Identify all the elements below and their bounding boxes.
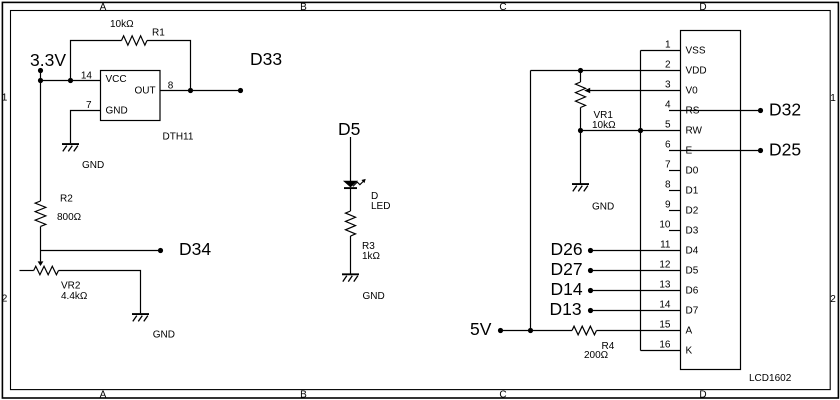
ground symbol (VR2) — [132, 314, 149, 321]
svg-text:D25: D25 — [769, 140, 801, 160]
wire RW row pin 5 — [581, 130, 681, 132]
wire R2 bottom lead — [40, 227, 42, 251]
svg-text:7: 7 — [665, 160, 671, 171]
svg-text:D27: D27 — [551, 259, 583, 279]
wire R1 right leg down to OUT net — [147, 41, 191, 91]
resistor VR1 body — [576, 82, 586, 107]
svg-text:E: E — [686, 146, 693, 157]
wire GND pin 7 — [71, 111, 102, 144]
ground symbol (VR1) — [572, 184, 589, 191]
node D25 terminal dot — [758, 148, 763, 153]
svg-text:D3: D3 — [686, 226, 699, 237]
svg-text:5V: 5V — [470, 319, 492, 339]
svg-text:D4: D4 — [686, 246, 699, 257]
svg-text:RS: RS — [686, 106, 700, 117]
junction dot R1 right on OUT — [188, 88, 193, 93]
wire K row pin 16 — [641, 350, 681, 352]
resistor R2 body — [35, 201, 46, 226]
svg-text:D13: D13 — [550, 299, 582, 319]
svg-text:B: B — [300, 2, 307, 13]
svg-text:V0: V0 — [686, 86, 699, 97]
svg-text:D5: D5 — [686, 266, 699, 277]
node D33 terminal dot — [238, 88, 243, 93]
arrowhead VR2 wiper — [38, 261, 44, 266]
wire 5V to R4 — [501, 330, 573, 332]
wire ground bus VSS to K — [640, 51, 642, 351]
node D34 terminal dot — [158, 248, 163, 253]
LED D cathode bar — [344, 187, 357, 189]
svg-text:1: 1 — [2, 93, 8, 104]
svg-text:B: B — [300, 390, 307, 400]
IC LCD1602 box — [681, 31, 741, 370]
svg-text:D14: D14 — [551, 279, 583, 299]
resistor R3 body — [346, 211, 356, 236]
svg-text:VDD: VDD — [686, 66, 707, 77]
resistor VR2 body — [34, 266, 59, 275]
wire D13 to pin 14 D7 — [591, 310, 681, 312]
svg-text:R2: R2 — [60, 194, 73, 205]
pin stub D2 — [669, 210, 681, 212]
wire OUT pin 8 to node D33 — [160, 90, 241, 92]
wire D14 to pin 13 D6 — [591, 290, 681, 292]
pin stub D3 — [669, 230, 681, 232]
svg-text:4.4kΩ: 4.4kΩ — [61, 291, 88, 302]
wire D27 to pin 12 D5 — [591, 270, 681, 272]
wire 5V riser to VDD — [530, 71, 532, 331]
wire VR1 bottom lead to RW row — [580, 108, 582, 131]
svg-text:VSS: VSS — [686, 46, 706, 57]
wire wiper stem into VR2 — [40, 251, 42, 262]
svg-text:GND: GND — [153, 330, 175, 341]
svg-text:D32: D32 — [769, 100, 801, 120]
svg-text:A: A — [100, 2, 107, 13]
ground symbol (DTH11) — [62, 144, 79, 151]
svg-text:3.3V: 3.3V — [30, 50, 66, 70]
svg-text:11: 11 — [660, 240, 671, 251]
svg-text:2: 2 — [665, 60, 671, 71]
svg-text:GND: GND — [82, 160, 104, 171]
node D14 terminal dot — [588, 288, 593, 293]
pin stub D0 — [669, 170, 681, 172]
wire D26 to pin 11 D4 — [591, 250, 681, 252]
pin stub D1 — [669, 190, 681, 192]
wire VR2 right lead to ground — [59, 271, 141, 314]
svg-text:C: C — [499, 390, 506, 400]
svg-text:10: 10 — [659, 220, 671, 231]
svg-text:4: 4 — [665, 100, 671, 111]
wire E pin 6 to node D25 — [669, 150, 761, 152]
svg-text:VR2: VR2 — [61, 281, 81, 292]
svg-text:D1: D1 — [686, 186, 699, 197]
svg-text:GND: GND — [363, 291, 385, 302]
junction dot VDD / VR1 top — [578, 68, 583, 73]
svg-text:1: 1 — [830, 93, 836, 104]
svg-text:D: D — [699, 390, 706, 400]
svg-text:800Ω: 800Ω — [57, 212, 82, 223]
svg-text:2: 2 — [830, 294, 836, 305]
wire 3.3V vertical bus down to R2 — [40, 71, 42, 202]
svg-text:A: A — [100, 390, 107, 400]
wire LED cathode to R3 — [350, 188, 352, 211]
junction dot VR1 bottom / RW — [578, 128, 583, 133]
svg-text:10kΩ: 10kΩ — [592, 120, 616, 131]
svg-text:D26: D26 — [551, 239, 583, 259]
svg-text:12: 12 — [659, 260, 671, 271]
svg-text:R1: R1 — [152, 28, 165, 39]
wire R3 to ground — [350, 236, 352, 274]
svg-text:OUT: OUT — [135, 86, 156, 97]
svg-text:RW: RW — [686, 126, 703, 137]
junction dot RW / ground bus — [638, 128, 643, 133]
svg-text:D7: D7 — [686, 306, 699, 317]
svg-text:GND: GND — [592, 202, 614, 213]
wire VSS row pin 1 — [641, 50, 681, 52]
svg-text:LCD1602: LCD1602 — [749, 373, 792, 384]
svg-text:D5: D5 — [338, 119, 360, 139]
junction dot 5V riser — [528, 328, 533, 333]
node D27 terminal dot — [588, 268, 593, 273]
wire D34 branch — [41, 250, 161, 252]
svg-text:DTH11: DTH11 — [163, 132, 194, 143]
svg-text:D: D — [699, 2, 706, 13]
wire R1 left leg — [71, 41, 122, 81]
svg-text:K: K — [686, 346, 693, 357]
node D32 terminal dot — [758, 108, 763, 113]
svg-text:6: 6 — [665, 140, 671, 151]
svg-text:8: 8 — [168, 80, 174, 91]
junction dot R1 left — [68, 78, 73, 83]
wire VCC branch to pin 14 — [41, 80, 102, 82]
svg-text:10kΩ: 10kΩ — [110, 19, 134, 30]
svg-text:200Ω: 200Ω — [584, 350, 609, 361]
svg-text:14: 14 — [81, 70, 93, 81]
svg-text:A: A — [686, 326, 693, 337]
node D26 terminal dot — [588, 248, 593, 253]
svg-text:1: 1 — [665, 40, 671, 51]
node 5V terminal dot — [498, 328, 503, 333]
wire VR1 top lead — [580, 71, 582, 83]
LED light arrow — [353, 179, 365, 186]
IC DTH11 box — [101, 71, 161, 121]
svg-text:7: 7 — [86, 100, 92, 111]
ground symbol (LED) — [342, 274, 359, 281]
resistor R4 body — [572, 326, 596, 335]
wire VR1 ground drop — [580, 131, 582, 184]
svg-text:5: 5 — [665, 120, 671, 131]
LED D triangle — [344, 181, 357, 187]
svg-text:C: C — [499, 2, 506, 13]
svg-text:3: 3 — [665, 80, 671, 91]
svg-text:VCC: VCC — [106, 74, 127, 85]
svg-text:1kΩ: 1kΩ — [362, 251, 381, 262]
svg-text:D34: D34 — [179, 239, 211, 259]
node D13 terminal dot — [588, 308, 593, 313]
svg-text:16: 16 — [659, 340, 671, 351]
svg-text:9: 9 — [665, 200, 671, 211]
wire RS pin 4 to node D32 — [669, 110, 761, 112]
svg-text:8: 8 — [665, 180, 671, 191]
svg-text:13: 13 — [659, 280, 671, 291]
resistor R1 body — [122, 36, 147, 45]
wire D5 to LED anode — [350, 137, 352, 181]
svg-text:15: 15 — [659, 320, 671, 331]
svg-text:D33: D33 — [250, 49, 282, 69]
svg-text:D2: D2 — [686, 206, 699, 217]
wire VDD row pin 2 — [531, 70, 681, 72]
svg-text:2: 2 — [2, 294, 8, 305]
svg-text:14: 14 — [659, 300, 671, 311]
junction dot VCC branch — [38, 78, 43, 83]
svg-text:GND: GND — [106, 106, 128, 117]
svg-text:D6: D6 — [686, 286, 699, 297]
wire V0 pin 3 to VR1 wiper — [590, 90, 681, 92]
wire R4 to pin 15 A — [597, 330, 681, 332]
arrowhead VR1 wiper — [584, 88, 590, 94]
wire VR2 left lead — [20, 270, 34, 272]
node 3.3V terminal dot — [38, 68, 43, 73]
svg-text:D0: D0 — [686, 166, 699, 177]
svg-text:LED: LED — [371, 201, 390, 212]
